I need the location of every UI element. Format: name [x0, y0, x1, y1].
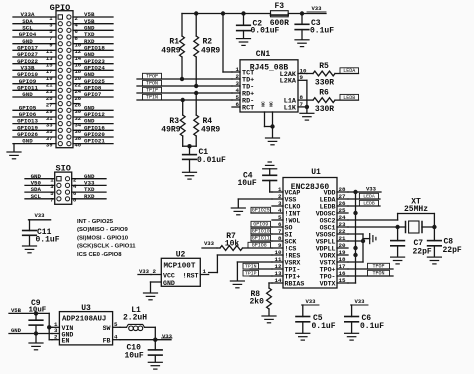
wire GPIO pin 37 (GPIO26) [13, 131, 56, 142]
net label LEDB [340, 94, 359, 100]
IC U3 ADP2108AUJ [52, 304, 120, 345]
svg-text:LEDB: LEDB [363, 201, 375, 207]
wire GPIO pin 40 (GPIO21) [73, 138, 113, 149]
svg-text:12: 12 [275, 263, 282, 270]
svg-text:U1: U1 [311, 168, 321, 177]
wire GPIO pin 5 (SCL) [13, 24, 56, 35]
svg-text:5: 5 [114, 321, 118, 328]
U1 pin 13 TPI+ [272, 270, 300, 281]
junction R3 to TPIN [181, 98, 185, 102]
U1 pin 28 VDD [324, 186, 348, 197]
svg-text:16: 16 [339, 270, 346, 277]
svg-text:TPIN: TPIN [146, 95, 158, 101]
wire GPIO pin 19 (GPIO10) [13, 71, 56, 82]
wire SIO pin 8 (RXD) [72, 193, 106, 204]
U1 pin 10 !RES [272, 249, 300, 260]
capacitor C5 0.1uF [296, 305, 336, 333]
svg-text:5: 5 [278, 214, 282, 221]
svg-text:TPIN: TPIN [245, 264, 257, 270]
power flag V33 at U1 VDD [348, 185, 381, 192]
fuse F3 600R [270, 2, 289, 28]
svg-text:R6: R6 [319, 88, 329, 97]
U1 pin 19 VDRX [320, 249, 348, 260]
power flag V5B input [9, 307, 23, 314]
U1 pin 24 OSC2 [320, 214, 348, 225]
stub GPIO pin 27 [46, 101, 56, 108]
junction R1 to TPOP [180, 77, 184, 81]
svg-text:EN: EN [62, 338, 70, 345]
wire GPIO pin 2 (V5B) [73, 11, 113, 22]
svg-text:40: 40 [75, 141, 82, 148]
svg-text:1: 1 [236, 66, 240, 73]
net label TPOP [143, 73, 162, 79]
junction rail at R2 [194, 11, 198, 15]
CN1 pin 3 TD- [232, 80, 254, 92]
wire GPIO pin 39 (GND) [13, 138, 56, 149]
U1 pin 2 VSS [272, 193, 296, 204]
svg-text:6: 6 [236, 101, 240, 108]
wire TPON from U1 [348, 275, 393, 277]
svg-text:VSOSC: VSOSC [316, 231, 336, 238]
U1 pin 7 SI [272, 228, 292, 239]
stub GPIO pin 28 [73, 101, 82, 108]
power flag V33 top right [307, 5, 326, 12]
svg-text:SCK: SCK [285, 238, 297, 245]
svg-text:GND: GND [22, 91, 33, 98]
svg-text:3: 3 [278, 200, 282, 207]
wire VSS pins to side ground [348, 234, 370, 262]
junction VDPLL [353, 246, 357, 250]
junction VIN EN tie [47, 325, 51, 329]
wire V33 filtered rail [182, 13, 326, 15]
junction rail at C2 [241, 11, 245, 15]
svg-text:ICS CE0 -GPIO8: ICS CE0 -GPIO8 [77, 252, 122, 258]
GPIO header title [50, 3, 71, 13]
wire GPIO pin 15 (GPIO22) [13, 58, 56, 69]
wire LEDA from U1 [348, 198, 380, 200]
wire OSC2 to crystal [348, 214, 434, 228]
wire GPIO pin 1 (V33A) [13, 11, 56, 22]
svg-text:19: 19 [339, 249, 346, 256]
svg-text:2k0: 2k0 [250, 297, 265, 306]
power flag V33 at U2 [138, 268, 151, 275]
CN1 pin 7 L1K [284, 101, 307, 113]
svg-text:GND: GND [163, 280, 175, 287]
svg-text:RXD: RXD [84, 193, 95, 200]
svg-text:2: 2 [54, 333, 58, 340]
SIO title [55, 164, 70, 174]
svg-text:330R: 330R [315, 78, 334, 87]
ground below CN1 shield [266, 138, 280, 145]
resistor R8 2k0 [250, 283, 273, 316]
U2 pin 2 VCC [151, 268, 161, 275]
svg-text:330R: 330R [315, 105, 334, 114]
U1 pin 1 VCAP [272, 186, 300, 197]
U1 pin 11 VSRX [272, 256, 300, 267]
net label LEDA at U1 [359, 193, 378, 199]
svg-text:4: 4 [114, 333, 118, 340]
svg-text:GPIO11: GPIO11 [252, 236, 270, 242]
svg-text:10: 10 [275, 249, 282, 256]
ground at U2 [144, 293, 158, 300]
wire GPIO pin 24 (GPIO8) [73, 84, 113, 95]
capacitor C10 10uF [125, 340, 163, 362]
svg-text:TPON: TPON [372, 271, 384, 277]
resistor R2 49R9 [194, 14, 221, 87]
svg-text:26: 26 [339, 200, 346, 207]
wire SIO pin 6 (TXD) [72, 186, 106, 197]
net label TPOP at U1 [368, 263, 390, 269]
svg-text:18: 18 [339, 256, 346, 263]
svg-text:TPO+: TPO+ [320, 266, 336, 273]
resistor R6 330R [307, 88, 359, 114]
U1 pin 8 SCK [272, 235, 296, 246]
svg-text:VCC: VCC [163, 273, 175, 280]
wire SIO pin 1 (GND) [25, 173, 55, 184]
net label TPIN at U1 [243, 263, 272, 269]
svg-text:GPIO8: GPIO8 [252, 243, 267, 249]
svg-text:V33: V33 [162, 333, 173, 340]
notes text block [77, 219, 136, 258]
CN1 pin 1 TCT [232, 66, 254, 78]
svg-text:V33: V33 [139, 268, 150, 275]
svg-text:LEDB: LEDB [343, 95, 355, 101]
wire SIO pin 3 (V50) [25, 180, 55, 191]
svg-text:22: 22 [339, 228, 346, 235]
svg-text:3: 3 [236, 80, 240, 87]
svg-text:25: 25 [339, 207, 346, 214]
svg-text:R5: R5 [319, 62, 329, 71]
CN1 shield pins [261, 101, 275, 126]
svg-text:1: 1 [278, 186, 282, 193]
svg-text:!CS: !CS [285, 245, 297, 252]
svg-text:GPIO7: GPIO7 [84, 91, 102, 98]
svg-text:R1: R1 [169, 38, 179, 47]
U1 pin 9 !CS [272, 242, 296, 253]
wire OSC1 to crystal [348, 226, 434, 228]
svg-text:7: 7 [300, 101, 304, 108]
wire TPON [137, 85, 232, 87]
svg-text:10k: 10k [225, 239, 240, 248]
CN1 pin 8 L1A [284, 94, 307, 106]
wire TPIP [137, 92, 232, 94]
wire GPIO pin 38 (GPIO20) [73, 131, 113, 142]
svg-text:R2: R2 [203, 38, 213, 47]
svg-text:2: 2 [153, 268, 157, 275]
U1 pin 15 VDTX [320, 277, 348, 288]
ground above C4 [263, 162, 277, 169]
GPIO header body [56, 11, 73, 148]
svg-text:GND: GND [22, 138, 33, 145]
svg-text:GPIO: GPIO [50, 3, 71, 13]
wire GPIO pin 30 (GND) [73, 104, 113, 115]
capacitor C4 10uF [238, 169, 277, 192]
svg-text:13: 13 [275, 270, 282, 277]
U1 pin 16 TPO- [320, 270, 348, 281]
ground below C11 [23, 246, 37, 253]
svg-text:25MHz: 25MHz [404, 205, 428, 214]
svg-text:TPIP: TPIP [146, 88, 158, 94]
resistor R4 49R9 [194, 93, 221, 146]
wire GPIO pin 26 (GPIO7) [73, 91, 113, 102]
svg-text:0.1uF: 0.1uF [360, 322, 384, 331]
wire GPIO pin 7 (GPIO4) [13, 31, 56, 42]
svg-text:GPIO10: GPIO10 [252, 229, 270, 235]
capacitor C11 0.1uF [23, 220, 60, 246]
U2 GND pin [151, 282, 162, 293]
net label TPIN [143, 94, 162, 100]
wire GPIO pin 21 (GPIO9) [13, 78, 56, 89]
svg-text:CLKO: CLKO [285, 203, 301, 210]
svg-text:FB: FB [103, 338, 111, 345]
svg-text:TPIP: TPIP [245, 271, 257, 277]
U1 pin 14 RBIAS [272, 277, 304, 288]
junction VDRX [353, 253, 357, 257]
ground below C2 [237, 39, 251, 46]
svg-text:(SO)MISO - GPIO9: (SO)MISO - GPIO9 [77, 227, 128, 233]
svg-text:9: 9 [278, 242, 282, 249]
svg-text:2.2uH: 2.2uH [123, 314, 147, 323]
svg-text:TPI-: TPI- [285, 266, 301, 273]
svg-text:SI: SI [285, 231, 293, 238]
ground below C1 [183, 172, 197, 179]
ground below C10 [148, 362, 162, 369]
svg-text:49R9: 49R9 [201, 126, 220, 135]
svg-text:7: 7 [278, 228, 282, 235]
ground below C7 [391, 257, 405, 264]
svg-text:SCL: SCL [31, 193, 42, 200]
svg-text:!WOL: !WOL [285, 217, 301, 224]
U1 pin 17 TPO+ [320, 263, 348, 274]
U1 pin 12 TPI- [272, 263, 300, 274]
wire GPIO pin 10 (RXD) [73, 38, 113, 49]
svg-text:10uF: 10uF [29, 307, 47, 315]
svg-text:VSTX: VSTX [320, 259, 336, 266]
svg-text:VDTX: VDTX [320, 280, 336, 287]
svg-text:V33: V33 [204, 240, 215, 247]
capacitor C7 22pF [391, 227, 432, 257]
CN1 pin 2 TD+ [232, 73, 254, 85]
power flag V33 output [162, 333, 173, 340]
net label LEDA [340, 68, 359, 74]
net label GND input [9, 327, 23, 334]
svg-text:SO: SO [285, 224, 293, 231]
svg-text:(SCK)SCLK - GPIO11: (SCK)SCLK - GPIO11 [77, 244, 136, 250]
wire GPIO pin 29 (GPIO5) [13, 104, 56, 115]
U1 pin 20 VDPLL [316, 242, 348, 253]
U3 pin 3 GND [52, 327, 59, 334]
svg-text:22pF: 22pF [443, 246, 462, 255]
wire TPOP [137, 78, 232, 80]
svg-text:0.1uF: 0.1uF [312, 322, 336, 331]
svg-text:V33: V33 [354, 298, 365, 305]
connector CN1 RJ45_08B [232, 50, 307, 126]
svg-text:VSRX: VSRX [285, 259, 301, 266]
wire VIN to EN [49, 327, 52, 339]
svg-text:49R9: 49R9 [161, 46, 180, 55]
svg-text:22pF: 22pF [413, 248, 432, 257]
svg-text:21: 21 [339, 235, 346, 242]
wire SIO pin 4 (V33) [72, 180, 106, 191]
svg-text:0.01uF: 0.01uF [197, 156, 226, 165]
CN1 pin 5 RD- [232, 94, 254, 106]
ground below R8 [262, 316, 276, 323]
wire VSS to ground [238, 199, 272, 208]
svg-text:24: 24 [339, 214, 346, 221]
IC U2 MCP100T reset supervisor [151, 251, 209, 293]
svg-text:F3: F3 [274, 2, 284, 11]
resistor R7 10k [217, 232, 272, 251]
svg-text:2: 2 [236, 73, 240, 80]
svg-text:OSC1: OSC1 [320, 224, 336, 231]
junction R4 to TPIP [194, 91, 198, 95]
junction CN1 shield [270, 124, 274, 128]
svg-text:27: 27 [339, 193, 346, 200]
svg-text:V33: V33 [305, 298, 316, 305]
ground below C9 [29, 343, 43, 350]
svg-text:MCP100T: MCP100T [164, 263, 196, 271]
ground at GPIO pin 39 [7, 144, 21, 159]
svg-text:RBIAS: RBIAS [285, 280, 305, 287]
capacitor C9 10uF [29, 299, 47, 334]
U1 pin 21 VSPLL [316, 235, 348, 246]
U3 pin 1 VIN [52, 321, 59, 328]
capacitor C8 22pF [428, 227, 462, 257]
svg-text:11: 11 [275, 256, 282, 263]
svg-text:0.01uF: 0.01uF [251, 27, 280, 36]
wire GPIO pin 3 (SDA) [13, 18, 56, 29]
svg-text:1: 1 [203, 268, 207, 275]
svg-text:20: 20 [339, 242, 346, 249]
net label TPON at U1 [368, 270, 390, 276]
svg-text:TPOP: TPOP [372, 264, 384, 270]
svg-text:9: 9 [300, 74, 304, 81]
capacitor C6 0.1uF [345, 305, 384, 333]
wire R3 R4 common node [183, 145, 197, 147]
wire GPIO pin 12 (GPIO18) [73, 44, 113, 55]
svg-text:V33: V33 [366, 185, 377, 192]
junction rail at C3 [300, 11, 304, 15]
net label GPIO11 [251, 235, 272, 241]
net label LEDB at U1 [359, 200, 378, 206]
wire GPIO pin 4 (V5B) [73, 18, 113, 29]
U1 pin 4 !INT [272, 207, 300, 218]
SIO body [55, 172, 72, 204]
ground at U1 VSS [231, 208, 245, 215]
svg-text:LEDA: LEDA [320, 196, 336, 203]
svg-text:RCT: RCT [242, 104, 254, 112]
wire VSRX to ground [237, 262, 272, 281]
svg-text:!INT: !INT [285, 210, 301, 217]
svg-text:5: 5 [236, 94, 240, 101]
svg-text:0.1uF: 0.1uF [310, 27, 334, 36]
U1 pin 18 VSTX [320, 256, 348, 267]
svg-text:L2KA: L2KA [280, 78, 297, 86]
svg-text:8: 8 [278, 235, 282, 242]
IC U1 ENC28J60 [272, 168, 348, 288]
wire GPIO pin 35 (GPIO19) [13, 124, 56, 135]
CN1 pin 4 RD+ [232, 87, 254, 99]
U1 pin 3 CLKO [272, 200, 300, 211]
svg-text:GPIO21: GPIO21 [84, 138, 105, 145]
junction FB C10 [153, 338, 157, 342]
power flag V33 at C11 [29, 212, 51, 220]
svg-text:!RES: !RES [285, 252, 301, 259]
svg-text:4: 4 [236, 87, 240, 94]
wire GPIO pin 9 (GND) [13, 38, 56, 49]
net label TPIP at U1 [243, 270, 272, 276]
ground below C3 [295, 40, 309, 47]
svg-text:V33: V33 [311, 5, 322, 12]
wire SIO pin 5 (SDA) [25, 186, 55, 197]
svg-text:VDPLL: VDPLL [316, 245, 336, 252]
wire GPIO pin 32 (GPIO12) [73, 111, 113, 122]
capacitor C1 0.01uF [183, 146, 226, 172]
svg-text:TPOP: TPOP [146, 74, 158, 80]
svg-text:LEDB: LEDB [320, 203, 336, 210]
wire GPIO pin 11 (GPIO17) [13, 44, 56, 55]
svg-text:OSC2: OSC2 [320, 217, 336, 224]
svg-text:10uF: 10uF [238, 179, 257, 188]
connector J1 GPIO 2x20 header [13, 3, 113, 148]
svg-text:6: 6 [278, 221, 282, 228]
junction rail at TCT drop [221, 11, 225, 15]
svg-text:CN1: CN1 [256, 50, 271, 59]
svg-text:49R9: 49R9 [201, 46, 220, 55]
U1 pin 22 VSOSC [316, 228, 348, 239]
wire shield to ground [272, 127, 274, 138]
svg-text:23: 23 [339, 221, 346, 228]
CN1 pin 10 L2AK [280, 67, 307, 79]
ground below C6 [345, 333, 359, 340]
junction C9 bottom GND [34, 331, 38, 335]
junction VSPLL [361, 239, 365, 243]
svg-text:7: 7 [50, 197, 53, 204]
wire C9 to ground [35, 334, 37, 343]
net label GPIO9 [251, 221, 272, 227]
wire GPIO pin 33 (GPIO13) [13, 118, 56, 129]
resistor R1 49R9 [161, 14, 184, 80]
wire GPIO pin 23 (GPIO11) [13, 84, 56, 95]
svg-text:GPIO9: GPIO9 [253, 222, 268, 228]
ground at U1 VSRX [230, 281, 244, 288]
junction at C1 [187, 144, 191, 148]
wire LED cathodes to ground [306, 80, 308, 113]
svg-text:TPI+: TPI+ [285, 273, 301, 280]
wire GPIO pin 25 (GND) [13, 91, 56, 102]
svg-text:14: 14 [275, 277, 282, 284]
net label TPON [143, 80, 162, 86]
ground below C5 [296, 333, 310, 340]
U3 pin 5 SW [113, 321, 120, 328]
svg-text:LEDA: LEDA [363, 194, 375, 200]
U3 pin 4 FB [113, 333, 120, 340]
wire GPIO pin 22 (GPIO25) [73, 78, 113, 89]
U1 pin 5 !WOL [272, 214, 300, 225]
svg-text:28: 28 [339, 186, 346, 193]
junction R2 to TPON [194, 84, 198, 88]
U2 pin 1 RST [200, 268, 208, 275]
wire LEDB from U1 [348, 205, 380, 207]
wire GND to U3 [9, 333, 52, 335]
svg-text:L1K: L1K [284, 104, 297, 112]
power flag V33 at R7 [202, 240, 217, 248]
svg-text:NC: NC [269, 101, 275, 107]
net label GPIO8 [248, 242, 271, 248]
wire GPIO pin 6 (GND) [73, 24, 113, 35]
svg-text:2: 2 [278, 193, 282, 200]
svg-text:15: 15 [339, 277, 346, 284]
